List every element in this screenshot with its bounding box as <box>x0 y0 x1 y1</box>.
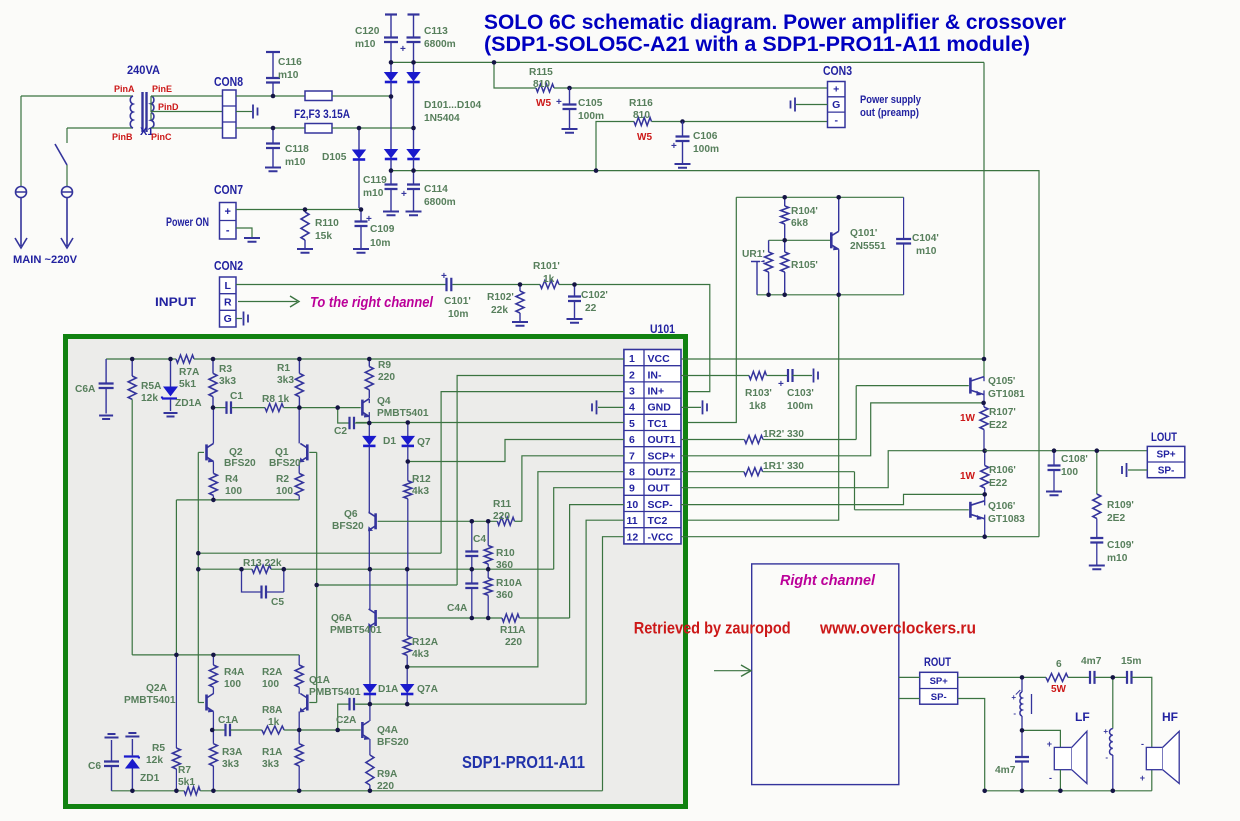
wire crossover ground rail <box>985 770 1152 791</box>
svg-text:C5: C5 <box>271 597 284 608</box>
svg-text:+: + <box>1140 773 1145 783</box>
module junction dots <box>130 357 135 362</box>
resistor R115 <box>494 62 536 88</box>
resistor R116 <box>596 122 634 171</box>
capacitor C5 <box>242 569 262 592</box>
transistor Q106' <box>969 502 972 518</box>
capacitor C108' <box>1053 451 1055 465</box>
svg-text:-: - <box>226 224 230 236</box>
svg-text:6: 6 <box>629 434 635 446</box>
capacitor C105 <box>569 88 571 104</box>
zener ZD1A <box>170 359 172 387</box>
transistor Q2 <box>205 444 208 460</box>
svg-text:OUT1: OUT1 <box>648 434 676 446</box>
pin3 IN+ internal wire <box>441 392 624 554</box>
svg-text:C103': C103' <box>787 388 814 399</box>
svg-text:R109': R109' <box>1107 500 1134 511</box>
svg-text:5: 5 <box>629 418 635 430</box>
svg-text:SP-: SP- <box>1158 465 1175 476</box>
svg-text:22k: 22k <box>491 305 508 316</box>
inductor L2 <box>1112 677 1114 728</box>
svg-text:4: 4 <box>629 402 635 414</box>
module SDP1-PRO11-A11 outline <box>66 337 686 807</box>
resistor 6 ohm <box>1046 673 1068 681</box>
svg-text:SDP1-PRO11-A11: SDP1-PRO11-A11 <box>462 752 585 772</box>
svg-text:GT1083: GT1083 <box>988 514 1025 525</box>
svg-text:+: + <box>441 271 447 282</box>
svg-text:Q2: Q2 <box>229 447 243 458</box>
svg-text:C109: C109 <box>370 224 395 235</box>
svg-text:+: + <box>1103 727 1108 736</box>
V+ rail drop <box>983 62 985 377</box>
svg-text:2: 2 <box>629 369 635 381</box>
svg-text:C120: C120 <box>355 26 380 37</box>
svg-text:1N5404: 1N5404 <box>424 113 460 124</box>
pin9 OUT internal wire <box>554 488 624 570</box>
svg-text:www.overclockers.ru: www.overclockers.ru <box>819 619 976 638</box>
svg-text:1: 1 <box>629 353 635 365</box>
svg-text:+: + <box>1047 739 1052 749</box>
svg-text:Right channel: Right channel <box>780 572 876 589</box>
svg-text:3: 3 <box>629 386 635 398</box>
resistor R103' <box>681 375 749 377</box>
svg-text:PinD: PinD <box>158 102 179 112</box>
svg-text:R1: R1 <box>277 363 290 374</box>
svg-text:C118: C118 <box>285 144 309 155</box>
svg-text:PinA: PinA <box>114 84 135 94</box>
svg-text:C114: C114 <box>424 184 448 195</box>
wire Q1 base column <box>316 452 318 702</box>
diodes D103 D104 bottom <box>390 97 392 151</box>
pin4 GND external stub <box>681 406 701 408</box>
wire output row <box>284 568 554 570</box>
svg-text:PMBT5401: PMBT5401 <box>330 625 382 636</box>
svg-text:VCC: VCC <box>648 353 671 365</box>
transistor Q101' <box>830 232 833 248</box>
svg-text:11: 11 <box>627 515 638 527</box>
pin4 GND internal stub <box>598 406 624 408</box>
capacitor C118 <box>272 128 274 143</box>
svg-text:100m: 100m <box>578 111 604 122</box>
svg-text:R10: R10 <box>496 548 515 559</box>
svg-text:R4: R4 <box>225 474 238 485</box>
svg-text:MAIN ~220V: MAIN ~220V <box>13 254 78 266</box>
svg-text:+: + <box>833 84 839 96</box>
wire Q6 base row and resistor R11 <box>378 520 498 522</box>
wire secondary bottom <box>151 127 223 129</box>
capacitor C113 <box>408 13 420 15</box>
svg-text:C4: C4 <box>473 534 486 545</box>
svg-text:PMBT5401: PMBT5401 <box>124 695 176 706</box>
svg-text:4m7: 4m7 <box>1081 656 1102 667</box>
wire mains bottom to transformer primary <box>67 127 133 129</box>
resistor R102' <box>519 285 521 292</box>
trimmer UR1' <box>768 240 770 252</box>
pin11 TC2 internal wire <box>586 520 624 704</box>
resistor R3 <box>212 359 214 373</box>
pin12 -VCC internal wire <box>603 537 624 791</box>
wire mains top to transformer primary <box>21 95 133 97</box>
ground CON7 minus <box>236 228 252 237</box>
svg-text:IN-: IN- <box>648 369 663 381</box>
svg-text:Q105': Q105' <box>988 376 1015 387</box>
svg-text:R115: R115 <box>529 67 553 78</box>
capacitor C2 <box>338 408 349 423</box>
fuse holder symbol left <box>20 96 22 187</box>
resistor R12A <box>406 569 408 636</box>
svg-text:5k1: 5k1 <box>178 777 195 788</box>
svg-text:R106': R106' <box>989 465 1016 476</box>
resistor R13 feedback <box>198 568 252 570</box>
svg-text:LOUT: LOUT <box>1151 432 1177 444</box>
svg-text:Q7A: Q7A <box>417 684 439 695</box>
capacitor C114 <box>413 171 415 184</box>
pin12 -VCC wire <box>681 536 1039 538</box>
svg-text:R: R <box>224 297 232 309</box>
svg-text:3k3: 3k3 <box>262 759 279 770</box>
svg-text:220: 220 <box>378 372 395 383</box>
resistor R2A <box>295 665 303 687</box>
wire CON7 plus row <box>236 209 361 211</box>
arrow to right channel <box>238 301 297 303</box>
svg-text:L: L <box>225 280 232 292</box>
svg-text:-: - <box>835 114 839 126</box>
transistor Q6A <box>374 610 377 626</box>
svg-text:10m: 10m <box>370 238 390 249</box>
capacitor C119 <box>390 171 392 184</box>
resistor R10 <box>487 521 489 545</box>
svg-text:R11A: R11A <box>500 625 526 636</box>
wire TC2 riser <box>681 295 839 520</box>
wire IN- row <box>317 584 457 586</box>
svg-text:360: 360 <box>496 590 513 601</box>
svg-text:Q2A: Q2A <box>146 683 168 694</box>
svg-text:m10: m10 <box>285 157 306 168</box>
wire CON8 to fuse F2 <box>236 95 305 97</box>
resistor R106' <box>984 451 986 466</box>
diode Q7 <box>407 423 409 437</box>
wire ROUT SP+ to crossover <box>958 676 1046 678</box>
pin2 IN- internal wire <box>457 376 624 586</box>
svg-text:R102': R102' <box>487 292 514 303</box>
svg-text:BFS20: BFS20 <box>377 737 409 748</box>
capacitor C4 <box>471 521 473 551</box>
arrow into right channel <box>714 670 750 672</box>
svg-text:1k8: 1k8 <box>749 401 766 412</box>
svg-text:R13 22k: R13 22k <box>243 558 282 569</box>
svg-text:810: 810 <box>533 79 550 90</box>
inductor L1 <box>1021 677 1023 692</box>
resistor R9A <box>366 755 374 785</box>
svg-text:C2A: C2A <box>336 715 357 726</box>
arrow mains right <box>61 232 73 248</box>
svg-text:D101...D104: D101...D104 <box>424 100 482 111</box>
svg-text:W5: W5 <box>536 98 551 109</box>
wire L1 to LF <box>1022 730 1060 747</box>
svg-text:PMBT5401: PMBT5401 <box>309 687 361 698</box>
capacitor C109 <box>360 210 362 222</box>
svg-text:1W: 1W <box>960 413 976 424</box>
capacitor 4m7 shunt <box>1021 730 1023 756</box>
svg-text:m10: m10 <box>363 188 384 199</box>
svg-text:R3A: R3A <box>222 747 243 758</box>
svg-text:(SDP1-SOLO5C-A21 with a SDP1-P: (SDP1-SOLO5C-A21 with a SDP1-PRO11-A11 m… <box>484 33 1030 56</box>
wire input row <box>236 284 446 286</box>
svg-text:-VCC: -VCC <box>648 531 674 543</box>
svg-text:CON7: CON7 <box>214 183 243 197</box>
svg-text:4m7: 4m7 <box>995 765 1016 776</box>
svg-text:R8A: R8A <box>262 705 283 716</box>
resistor 1R1' 330 <box>681 471 744 473</box>
svg-text:ZD1A: ZD1A <box>175 398 202 409</box>
capacitor C1 and resistor R8 row <box>213 407 226 409</box>
capacitor C120 <box>385 13 397 15</box>
speaker LF <box>1054 747 1071 769</box>
svg-text:C106: C106 <box>693 131 718 142</box>
svg-text:R10A: R10A <box>496 578 523 589</box>
wire VCC top rail <box>106 358 176 360</box>
diode D1A <box>364 685 376 693</box>
svg-text:7: 7 <box>629 450 635 462</box>
svg-text:SP-: SP- <box>931 692 947 703</box>
svg-text:PMBT5401: PMBT5401 <box>377 408 429 419</box>
svg-text:CON8: CON8 <box>214 75 243 89</box>
svg-text:Q7: Q7 <box>417 437 431 448</box>
svg-text:240VA: 240VA <box>127 63 160 77</box>
svg-text:Q6: Q6 <box>344 509 358 520</box>
resistor R10A <box>487 569 489 578</box>
svg-text:2E2: 2E2 <box>1107 513 1125 524</box>
ground stub CON3 G <box>796 104 828 106</box>
capacitor C101' <box>447 278 452 292</box>
svg-text:E22: E22 <box>989 478 1007 489</box>
resistor R1 <box>298 359 300 373</box>
svg-text:100: 100 <box>225 486 242 497</box>
svg-text:Q101': Q101' <box>850 228 877 239</box>
wire bias block top <box>736 196 903 198</box>
resistor R12 <box>407 462 409 481</box>
pin6 OUT1 internal wire <box>408 440 624 462</box>
svg-text:100: 100 <box>262 679 279 690</box>
svg-text:100: 100 <box>1061 467 1078 478</box>
svg-text:SCP-: SCP- <box>648 499 674 511</box>
wire output node <box>985 450 1148 452</box>
svg-text:R7: R7 <box>178 765 191 776</box>
svg-text:Q106': Q106' <box>988 501 1015 512</box>
svg-text:3k3: 3k3 <box>222 759 239 770</box>
svg-text:D1A: D1A <box>378 684 399 695</box>
capacitor 4m7 series <box>1090 671 1095 684</box>
svg-text:TC1: TC1 <box>648 418 668 430</box>
svg-text:C102': C102' <box>581 290 608 301</box>
resistor R109' <box>1096 451 1098 494</box>
wire diff pair tail <box>176 500 299 655</box>
svg-text:9: 9 <box>629 483 635 495</box>
svg-text:C119: C119 <box>363 175 387 186</box>
svg-text:m10: m10 <box>1107 553 1128 564</box>
resistor R105' <box>784 240 786 252</box>
svg-text:R5: R5 <box>152 743 165 754</box>
svg-text:100m: 100m <box>693 144 719 155</box>
capacitor C4A <box>471 569 473 583</box>
resistor 1R2' 330 <box>681 439 744 441</box>
svg-text:out (preamp): out (preamp) <box>860 107 919 119</box>
svg-text:BFS20: BFS20 <box>332 521 364 532</box>
resistor R9 <box>368 359 370 367</box>
svg-text:ZD1: ZD1 <box>140 773 160 784</box>
svg-text:TC2: TC2 <box>648 515 668 527</box>
capacitor C1A resistor R8A row <box>212 729 225 731</box>
wire secondary top <box>151 95 223 97</box>
svg-text:360: 360 <box>496 560 513 571</box>
svg-text:R110: R110 <box>315 218 339 229</box>
svg-text:+: + <box>1011 693 1016 702</box>
capacitor C109' <box>1090 538 1103 543</box>
svg-text:R12: R12 <box>412 474 431 485</box>
svg-text:R9: R9 <box>378 360 391 371</box>
wire CON8 mid stub <box>236 111 252 113</box>
svg-text:220: 220 <box>493 511 510 522</box>
fuse F2 <box>305 91 332 101</box>
svg-text:SP+: SP+ <box>930 676 949 687</box>
svg-text:4k3: 4k3 <box>412 486 429 497</box>
svg-text:C6: C6 <box>88 761 101 772</box>
svg-text:C1A: C1A <box>218 715 239 726</box>
svg-text:1R1' 330: 1R1' 330 <box>763 461 804 472</box>
pin7 SCP+ wire <box>681 403 984 456</box>
svg-text:2N5551: 2N5551 <box>850 241 886 252</box>
svg-text:-: - <box>1105 753 1108 762</box>
svg-text:C105: C105 <box>578 98 603 109</box>
resistor R5 <box>175 655 177 748</box>
resistor R110 <box>304 210 306 213</box>
arrow mains left <box>15 232 27 248</box>
pin10 SCP- wire <box>681 494 985 504</box>
svg-text:R116: R116 <box>629 98 653 109</box>
svg-text:SCP+: SCP+ <box>648 450 676 462</box>
svg-text:m10: m10 <box>355 39 376 50</box>
svg-text:R3: R3 <box>219 364 232 375</box>
svg-text:GT1081: GT1081 <box>988 389 1025 400</box>
transistor Q4 <box>361 400 364 416</box>
svg-text:15k: 15k <box>315 231 332 242</box>
svg-text:C4A: C4A <box>447 603 468 614</box>
svg-text:PinE: PinE <box>152 84 172 94</box>
resistor R7A <box>176 355 194 363</box>
svg-text:12k: 12k <box>141 393 158 404</box>
svg-text:5W: 5W <box>1051 684 1067 695</box>
diode D1 <box>368 423 370 436</box>
svg-text:R11: R11 <box>493 499 511 510</box>
svg-text:1k: 1k <box>543 274 555 285</box>
svg-text:C1: C1 <box>230 391 243 402</box>
svg-text:6800m: 6800m <box>424 39 456 50</box>
svg-text:6: 6 <box>1056 659 1062 670</box>
transistor Q6 <box>374 513 377 529</box>
svg-text:Power ON: Power ON <box>166 215 209 229</box>
wire fuse F3 to bridge <box>332 127 414 129</box>
diode D105 <box>358 128 360 150</box>
svg-text:-: - <box>1049 773 1052 783</box>
svg-text:4k3: 4k3 <box>412 649 429 660</box>
capacitor C6 <box>111 766 113 791</box>
pin7 SCP+ internal wire <box>522 456 624 522</box>
pin10 SCP- internal wire <box>570 505 624 618</box>
svg-text:D1: D1 <box>383 436 396 447</box>
fuse F3 <box>305 124 332 134</box>
wire ROUT SP- to ground rail <box>958 699 985 791</box>
svg-text:To the right channel: To the right channel <box>310 294 434 311</box>
svg-text:m10: m10 <box>278 70 299 81</box>
svg-text:R7A: R7A <box>179 367 200 378</box>
zener ZD1 <box>131 768 133 791</box>
wire lower pair rail <box>132 654 299 656</box>
svg-text:R4A: R4A <box>224 667 245 678</box>
resistor R104' <box>784 197 786 206</box>
svg-text:-: - <box>1141 739 1144 749</box>
wire V- bottom bus <box>391 171 1039 537</box>
svg-text:R1A: R1A <box>262 747 283 758</box>
diodes D101 D102 top <box>390 62 392 73</box>
svg-text:OUT2: OUT2 <box>648 467 676 479</box>
ground stub LOUT SP- <box>1128 469 1147 471</box>
svg-text:R5A: R5A <box>141 381 162 392</box>
wire module bottom rail <box>112 790 185 792</box>
svg-text:C2: C2 <box>334 426 347 437</box>
svg-text:F2,F3 3.15A: F2,F3 3.15A <box>294 109 350 121</box>
svg-text:E22: E22 <box>989 420 1007 431</box>
svg-text:G: G <box>224 313 232 325</box>
fuse holder symbol right <box>62 187 73 198</box>
resistor R101' <box>540 281 559 289</box>
wire Q6A base row and resistor R11A <box>378 617 502 619</box>
resistor R3A <box>212 730 214 744</box>
svg-text:+: + <box>556 97 562 108</box>
svg-text:Q4A: Q4A <box>377 725 399 736</box>
svg-text:C109': C109' <box>1107 540 1134 551</box>
svg-text:UR1': UR1' <box>742 249 765 260</box>
svg-text:12k: 12k <box>146 755 163 766</box>
svg-text:6800m: 6800m <box>424 197 456 208</box>
transistor Q4A <box>361 722 364 738</box>
wire input node column <box>197 452 199 702</box>
crossover junction dots <box>1020 675 1025 680</box>
capacitor C2A <box>338 704 349 730</box>
svg-text:R12A: R12A <box>412 637 439 648</box>
svg-text:BFS20: BFS20 <box>269 458 301 469</box>
svg-text:C6A: C6A <box>75 384 96 395</box>
resistor R4A <box>209 665 217 687</box>
svg-text:810: 810 <box>633 110 650 121</box>
capacitor C116 <box>272 82 274 96</box>
resistor R4 <box>209 473 217 495</box>
svg-text:BFS20: BFS20 <box>224 458 256 469</box>
wire fuse F2 to bridge <box>332 95 391 97</box>
svg-text:Q6A: Q6A <box>331 613 353 624</box>
svg-text:R2A: R2A <box>262 667 283 678</box>
svg-text:220: 220 <box>505 637 522 648</box>
capacitor C103' <box>788 369 793 382</box>
svg-text:R8 1k: R8 1k <box>262 394 290 405</box>
svg-text:m10: m10 <box>916 246 937 257</box>
pin8 OUT2 internal wire <box>407 472 624 667</box>
capacitor C106 <box>682 122 684 137</box>
svg-text:R9A: R9A <box>377 769 398 780</box>
wire bias block bottom <box>757 294 904 296</box>
transistor Q2A <box>205 695 208 711</box>
wire CON8 to fuse F3 <box>236 127 305 129</box>
svg-text:CON3: CON3 <box>823 64 852 78</box>
